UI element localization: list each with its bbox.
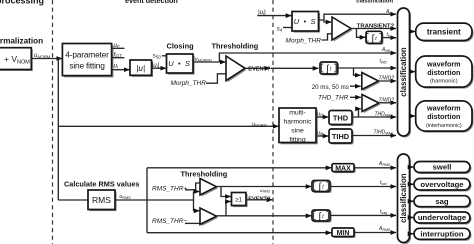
svg-text:processing: processing	[0, 0, 44, 6]
svg-text:THD_THR: THD_THR	[318, 94, 349, 101]
svg-text:(harmonic): (harmonic)	[430, 79, 458, 85]
svg-text:U • S: U • S	[168, 59, 191, 68]
svg-text:Thresholding: Thresholding	[212, 41, 259, 50]
svg-text:classification: classification	[399, 173, 408, 223]
svg-text:ARMS: ARMS	[378, 226, 391, 232]
svg-text:s50: s50	[153, 52, 162, 59]
svg-text:Morph_THR: Morph_THR	[286, 38, 322, 45]
svg-text:harmonic: harmonic	[284, 119, 313, 126]
svg-text:event detection: event detection	[125, 0, 178, 5]
svg-text:uF: uF	[114, 42, 120, 49]
svg-text:undervoltage: undervoltage	[418, 213, 467, 222]
svg-text:ttr: ttr	[387, 32, 391, 38]
svg-text:sine: sine	[291, 127, 304, 134]
svg-text:Atr: Atr	[385, 9, 392, 15]
svg-text:s4: s4	[277, 26, 283, 33]
svg-text:classification: classification	[356, 0, 393, 4]
svg-text:overvoltage: overvoltage	[420, 180, 464, 189]
svg-text:tswl: tswl	[380, 180, 387, 186]
svg-text:THDMAX: THDMAX	[375, 111, 394, 117]
svg-text:multi-: multi-	[289, 110, 306, 117]
svg-text:ARMS: ARMS	[378, 161, 391, 167]
svg-text:Calculate RMS values: Calculate RMS values	[64, 180, 139, 189]
svg-text:Thresholding: Thresholding	[181, 169, 228, 178]
svg-text:4-parameter: 4-parameter	[65, 49, 109, 59]
svg-text:tWD: tWD	[380, 59, 388, 65]
svg-text:sag: sag	[435, 197, 449, 206]
svg-text:≥1: ≥1	[235, 198, 242, 204]
svg-text:MAX: MAX	[335, 166, 351, 173]
svg-text:EVENT?: EVENT?	[248, 66, 271, 72]
svg-text:classification: classification	[399, 47, 408, 97]
svg-text:interruption: interruption	[420, 230, 463, 239]
svg-text:RMS_THR+: RMS_THR+	[152, 185, 187, 192]
svg-text:U • S: U • S	[294, 17, 317, 26]
svg-text:ui: ui	[114, 63, 119, 70]
svg-text:(interharmonic): (interharmonic)	[426, 123, 462, 129]
svg-text:distortion: distortion	[427, 68, 460, 77]
svg-text:uRMS: uRMS	[119, 194, 131, 200]
svg-text:Normalization: Normalization	[0, 37, 43, 46]
svg-text:uNORM: uNORM	[252, 121, 267, 127]
svg-text:fFIT: fFIT	[114, 52, 123, 59]
svg-text:swell: swell	[433, 163, 452, 172]
svg-text:tsag: tsag	[380, 209, 387, 215]
svg-text:uRMS: uRMS	[260, 188, 271, 194]
svg-text:RMS_THR−: RMS_THR−	[152, 218, 187, 225]
svg-text:RMS: RMS	[92, 195, 111, 205]
svg-text:fitting: fitting	[289, 136, 305, 143]
svg-text:ANE: ANE	[381, 47, 391, 53]
svg-text:MIN: MIN	[337, 230, 350, 237]
svg-text:THD: THD	[333, 114, 349, 123]
svg-text:TIHD: TIHD	[332, 132, 350, 141]
svg-text:transient: transient	[427, 28, 461, 37]
svg-text:20 ms, 50 ms: 20 ms, 50 ms	[312, 84, 349, 91]
svg-text:sine fitting: sine fitting	[69, 60, 105, 70]
svg-text:Morph_THR: Morph_THR	[171, 80, 207, 87]
svg-text:Closing: Closing	[167, 41, 195, 50]
svg-text:distortion: distortion	[427, 112, 460, 121]
svg-text:TIHDMAX: TIHDMAX	[374, 130, 394, 136]
svg-text:|u|: |u|	[136, 64, 145, 73]
